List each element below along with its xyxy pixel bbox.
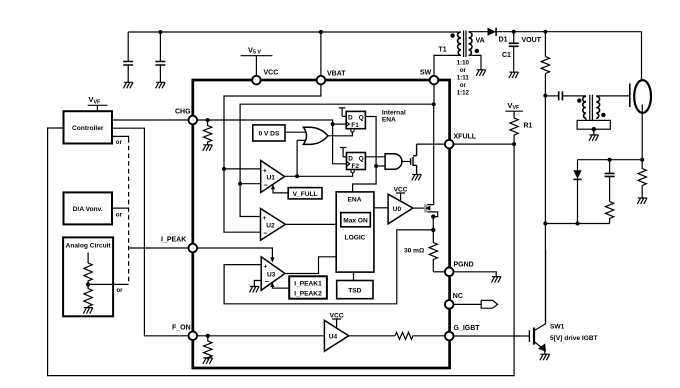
svg-text:ENA: ENA: [348, 197, 362, 204]
svg-text:U4: U4: [329, 334, 338, 341]
wire: F2 Q to AND upper input: [365, 156, 385, 158]
node: junction U1 out / OR / F2 reset: [295, 174, 299, 178]
F1 reset bubble: [351, 129, 354, 132]
tie-high flag (F2 D): [340, 148, 347, 157]
svg-text:or: or: [116, 287, 123, 294]
svg-text:U0: U0: [393, 206, 402, 213]
lamp electrode plate: [629, 84, 631, 108]
ground (cap2): [156, 82, 166, 88]
node: junction FF clock branch: [331, 122, 335, 126]
node: junction VOUT sense: [543, 30, 547, 34]
svg-text:Internal: Internal: [382, 110, 406, 117]
svg-text:VCC: VCC: [264, 70, 279, 77]
ground (M1 source): [412, 175, 422, 181]
wire: OR lower input stub: [297, 139, 306, 141]
svg-text:SW1: SW1: [550, 324, 565, 331]
svg-text:or: or: [116, 212, 123, 219]
op-amp U2: [261, 209, 286, 241]
wire: G_IGBT to SW1 gate: [453, 335, 529, 337]
wire: or-bus to I_PEAK: [129, 247, 189, 249]
pin I_PEAK: [189, 244, 198, 253]
wire: U0 output to M2 gate: [413, 207, 425, 209]
node: junction bottom rail / VOUT column: [543, 222, 547, 226]
transformer T1 core: [464, 31, 466, 58]
wire: U1 output: [285, 173, 353, 176]
shield box under T2: [577, 120, 610, 129]
ground (lamp sense resistor): [637, 198, 647, 204]
wire: M2 source to sense node: [432, 217, 434, 230]
svg-text:Q: Q: [359, 155, 364, 162]
label F2 pins: [348, 155, 364, 170]
svg-text:1:12: 1:12: [457, 90, 470, 97]
wire: lamp bottom electrode: [641, 105, 643, 160]
ground (analog circuit): [83, 308, 93, 314]
wire: logic to U0: [374, 207, 388, 209]
pin PGND: [445, 268, 454, 277]
svg-text:1:10: 1:10: [457, 60, 470, 67]
flip-flop F1: [346, 111, 365, 128]
wire: controller to CHG: [112, 119, 189, 121]
flip-flop F2: [347, 153, 366, 170]
transformer T1 primary winding: [458, 32, 461, 56]
node: junction coupling cap: [543, 94, 547, 98]
wire: controller to or-bus: [112, 136, 129, 138]
wire: analog internal top: [87, 253, 89, 264]
wire: SW internal sense: [433, 80, 435, 104]
box Max ON: [341, 213, 371, 227]
box TSD: [337, 281, 373, 299]
node: junction CHG pulldown: [206, 118, 210, 122]
wire: U4 output: [349, 335, 395, 337]
logic block box: [336, 192, 374, 272]
svg-text:F2: F2: [352, 163, 360, 170]
D/A converter box: [64, 192, 113, 224]
buffer U0: [388, 194, 413, 224]
node: junction current sense: [431, 228, 435, 232]
wire: T1 primary bottom to SW: [434, 55, 461, 76]
wire: XFULL to R1 node: [453, 143, 514, 145]
resistor (analog upper): [84, 263, 92, 284]
pin CHG: [189, 116, 198, 125]
diode D1: [488, 28, 497, 36]
ground (T2 shield): [589, 135, 599, 141]
resistor (lamp current sense): [638, 160, 646, 198]
wire: T1 secondary to D1: [469, 31, 488, 33]
svg-text:NC: NC: [453, 293, 463, 300]
wire: AND output to M1 gate: [402, 161, 410, 163]
label U1: [263, 167, 275, 189]
node: junction cap branch: [608, 158, 612, 162]
NC flag: [481, 300, 497, 308]
ground (U3 minus): [250, 287, 260, 293]
svg-text:−: −: [263, 228, 268, 237]
op-amp U1: [261, 161, 285, 193]
wire: OR output to F1 reset: [328, 133, 353, 136]
wire: F1 clock branch: [333, 123, 347, 125]
box 0 V DS: [253, 125, 285, 141]
svg-text:I_PEAK1: I_PEAK1: [294, 281, 322, 288]
svg-text:D1: D1: [499, 37, 508, 44]
power flag VVF (R1): [505, 101, 523, 113]
pin XFULL: [445, 140, 454, 149]
node: shield box junction: [592, 127, 596, 131]
wire: cap1 drop: [127, 32, 129, 61]
wire: shield to ground: [593, 129, 595, 134]
svg-text:+: +: [263, 167, 267, 174]
pin VCC: [252, 76, 261, 85]
svg-text:T1: T1: [439, 47, 447, 54]
wire: I_PEAK1 arrow into U3: [270, 282, 289, 288]
svg-text:F1: F1: [351, 122, 359, 129]
ground (F_ON pulldown): [203, 358, 213, 364]
transformer T2 primary winding: [583, 96, 586, 118]
label T1 turns ratio: [457, 60, 470, 97]
wire: VBAT drop to pin: [320, 32, 322, 76]
svg-text:0 V DS: 0 V DS: [258, 131, 279, 138]
svg-text:VA: VA: [476, 38, 485, 45]
svg-text:PGND: PGND: [454, 262, 474, 269]
wire: logic to TSD: [353, 272, 355, 280]
node: junction R1 / feedback: [512, 142, 516, 146]
wire: controller to F_ON: [112, 128, 189, 336]
power flag VVF (controller): [88, 95, 108, 111]
node: T2 secondary phasing dot: [601, 113, 605, 117]
node: junction SW sense: [432, 102, 436, 106]
label U2: [263, 215, 275, 237]
svg-text:F_ON: F_ON: [172, 325, 191, 332]
wire: node to coupling cap: [545, 95, 558, 97]
pin NC: [445, 300, 454, 309]
svg-text:XFULL: XFULL: [454, 134, 477, 141]
power flag V5V: [241, 45, 273, 76]
resistor R1: [510, 113, 518, 144]
F1 clock chevron: [346, 122, 349, 127]
label U3: [264, 263, 276, 286]
node: junction bottom rail / diode: [576, 222, 580, 226]
svg-text:D/A Vonv.: D/A Vonv.: [73, 206, 103, 213]
wire: resistor to cap node: [544, 74, 546, 96]
IC device outline: [193, 80, 450, 368]
svg-text:SW: SW: [420, 70, 432, 77]
svg-text:I_PEAK: I_PEAK: [161, 237, 186, 244]
ground (SW1 emitter): [540, 354, 550, 360]
wire: lamp return rail: [578, 159, 643, 161]
node: T2 primary phasing dot: [577, 98, 581, 102]
wire: T1 secondary bottom to ground: [469, 55, 481, 69]
svg-text:VOUT: VOUT: [522, 37, 542, 44]
wire: I_PEAK arrow into U3: [193, 248, 275, 263]
wire: cap2 drop: [159, 32, 161, 61]
or-gate U5: [303, 127, 328, 144]
wire: sense resistor to PGND: [433, 271, 446, 273]
svg-text:or: or: [460, 67, 467, 74]
wire: VBAT top rail: [128, 31, 459, 33]
svg-text:U2: U2: [266, 222, 275, 229]
wire: feedback loop (VVF to controller): [48, 128, 514, 376]
wire: T2 secondary top to lamp electrode: [596, 95, 630, 97]
svg-text:LOGIC: LOGIC: [345, 235, 366, 242]
wire: cap2 to ground: [159, 65, 161, 82]
transistor M2: [424, 204, 438, 216]
wire: F1 Q to AND / ENA: [365, 117, 376, 167]
wire: U3 output to logic: [285, 257, 336, 274]
node: junction AND input branch: [374, 164, 378, 168]
F2 clock chevron: [347, 162, 350, 167]
node: junction M2 source: [431, 214, 435, 218]
wire: D1 to VOUT rail: [496, 31, 641, 33]
ground (C1): [509, 72, 519, 78]
svg-text:G_IGBT: G_IGBT: [454, 325, 481, 332]
capacitor (coupling to T2): [559, 91, 563, 100]
svg-text:−: −: [264, 181, 269, 190]
resistor (CHG pulldown): [203, 120, 211, 145]
wire: NC stub: [453, 303, 481, 305]
tie-high flag (F1 D): [339, 108, 346, 116]
label F1 pins: [348, 114, 364, 129]
wire: PGND external to ground: [453, 272, 496, 277]
svg-text:VBAT: VBAT: [327, 71, 346, 78]
pin VBAT: [317, 76, 326, 85]
label Internal ENA: [382, 110, 406, 124]
wire: cap to T2 primary: [562, 95, 586, 97]
power flag VCC (U4): [330, 313, 344, 328]
analog circuit box: [63, 237, 113, 316]
resistor 30 mOhm: [429, 230, 437, 272]
and-gate U6: [385, 154, 402, 170]
lamp (CCFL bulb): [634, 80, 651, 113]
svg-text:I_PEAK2: I_PEAK2: [294, 291, 322, 298]
svg-text:1:11: 1:11: [457, 75, 470, 82]
node: junction top rail / VBAT drop: [319, 30, 323, 34]
svg-text:or: or: [116, 139, 123, 146]
wire: VOUT sense drop: [544, 32, 546, 57]
wire: T2 windings into shield box: [585, 119, 587, 122]
node: T1 primary phasing dot: [450, 33, 454, 37]
transistor M1: [411, 144, 417, 174]
svg-text:D: D: [348, 114, 353, 121]
ground (T1 secondary): [476, 70, 486, 76]
capacitor (input filter 2): [155, 62, 165, 66]
wire: U1 + stub: [224, 168, 261, 170]
wire: VOUT column down to IGBT collector: [544, 96, 546, 324]
svg-text:TSD: TSD: [348, 288, 361, 295]
wire: lamp top feed: [641, 32, 643, 89]
capacitor (input filter 1): [123, 62, 133, 66]
diode (feedback rectifier): [573, 160, 581, 224]
node: T1 secondary phasing dot: [475, 49, 479, 53]
box V_FULL: [288, 188, 322, 199]
wire: U2 output to logic: [285, 223, 336, 225]
pin SW: [430, 76, 439, 85]
svg-text:Q: Q: [359, 114, 364, 121]
transformer T2 core: [590, 95, 593, 120]
resistor (gate drive): [395, 332, 446, 339]
F2 reset bubble: [351, 170, 354, 173]
wire: D/A to or-bus: [112, 207, 129, 209]
resistor (feedback filter): [605, 202, 613, 224]
wire: SW sense run to comparators: [240, 104, 434, 216]
node: junction C1: [512, 30, 516, 34]
svg-text:Max ON: Max ON: [343, 217, 368, 224]
wire: sense feedback to U3: [224, 230, 433, 304]
box I_PEAK1 I_PEAK2: [289, 276, 327, 298]
svg-text:V_FULL: V_FULL: [293, 191, 318, 198]
svg-text:+: +: [264, 263, 268, 270]
resistor (VOUT divider top): [541, 57, 549, 74]
buffer U4: [324, 320, 348, 351]
wire: U1 out vertical to OR: [296, 140, 298, 176]
svg-text:R1: R1: [524, 123, 533, 130]
wire: C1 to ground: [513, 46, 515, 72]
wire: feedback bottom rail: [545, 223, 609, 225]
svg-text:U1: U1: [267, 175, 276, 182]
transformer T1 secondary winding: [469, 32, 472, 56]
svg-text:D: D: [348, 155, 353, 162]
label I_PEAK1 I_PEAK2: [294, 281, 322, 298]
ground (CHG pulldown): [203, 145, 213, 151]
wire: CHG input run to FF clocks: [193, 120, 346, 164]
pin F_ON: [189, 332, 198, 341]
svg-text:ENA: ENA: [382, 117, 396, 124]
svg-text:U3: U3: [267, 272, 276, 279]
node: junction lamp return: [640, 158, 644, 162]
wire: F_ON run to U4: [193, 335, 325, 337]
svg-text:5[V] drive IGBT: 5[V] drive IGBT: [550, 335, 598, 342]
transistor SW1 (IGBT): [529, 250, 545, 351]
wire: C1 drop: [513, 32, 515, 43]
svg-text:Analog Circuit: Analog Circuit: [66, 243, 112, 250]
wire: VBAT internal sense: [224, 80, 321, 232]
node: junction top rail / cap2: [158, 30, 162, 34]
transformer T2 secondary winding: [596, 96, 599, 118]
wire: dashed alternative bus: [128, 138, 130, 284]
capacitor C1: [509, 43, 519, 46]
svg-text:Controller: Controller: [72, 125, 104, 132]
resistor (analog lower): [84, 284, 92, 307]
node: junction U1 +: [222, 167, 226, 171]
wire: V_FULL arrow into U1: [271, 184, 288, 193]
wire: analog tap to or-bus: [88, 283, 129, 285]
pin G_IGBT: [445, 332, 454, 341]
wire: U1 - stub: [240, 183, 261, 185]
svg-text:C1: C1: [502, 52, 511, 59]
resistor (F_ON pulldown): [204, 336, 212, 360]
wire: SW1 emitter to ground: [544, 350, 546, 354]
node: junction F_ON pulldown: [206, 334, 210, 338]
op-amp U3: [261, 257, 285, 291]
svg-text:+: +: [263, 215, 267, 222]
wire: AND lower input stub: [376, 165, 385, 167]
node: junction U1 -: [238, 182, 242, 186]
controller box: [64, 111, 113, 143]
ground (PGND): [491, 277, 501, 283]
svg-text:CHG: CHG: [175, 109, 191, 116]
svg-text:30 mΩ: 30 mΩ: [404, 248, 425, 255]
wire: 0VDS to OR gate: [285, 131, 306, 133]
capacitor (feedback filter): [605, 160, 615, 202]
wire: SW vertical to M2 drain: [433, 104, 435, 204]
svg-text:or: or: [460, 82, 467, 89]
wire: cap1 to ground: [127, 65, 129, 82]
power flag VCC (U0): [394, 187, 408, 201]
wire: ENA feed to logic box: [353, 166, 377, 192]
wire: XFULL internal to M1 drain: [417, 143, 446, 145]
node: analog divider junction: [86, 282, 90, 286]
wire: U3 - ground stub: [254, 281, 261, 287]
ground (cap1): [123, 82, 133, 88]
